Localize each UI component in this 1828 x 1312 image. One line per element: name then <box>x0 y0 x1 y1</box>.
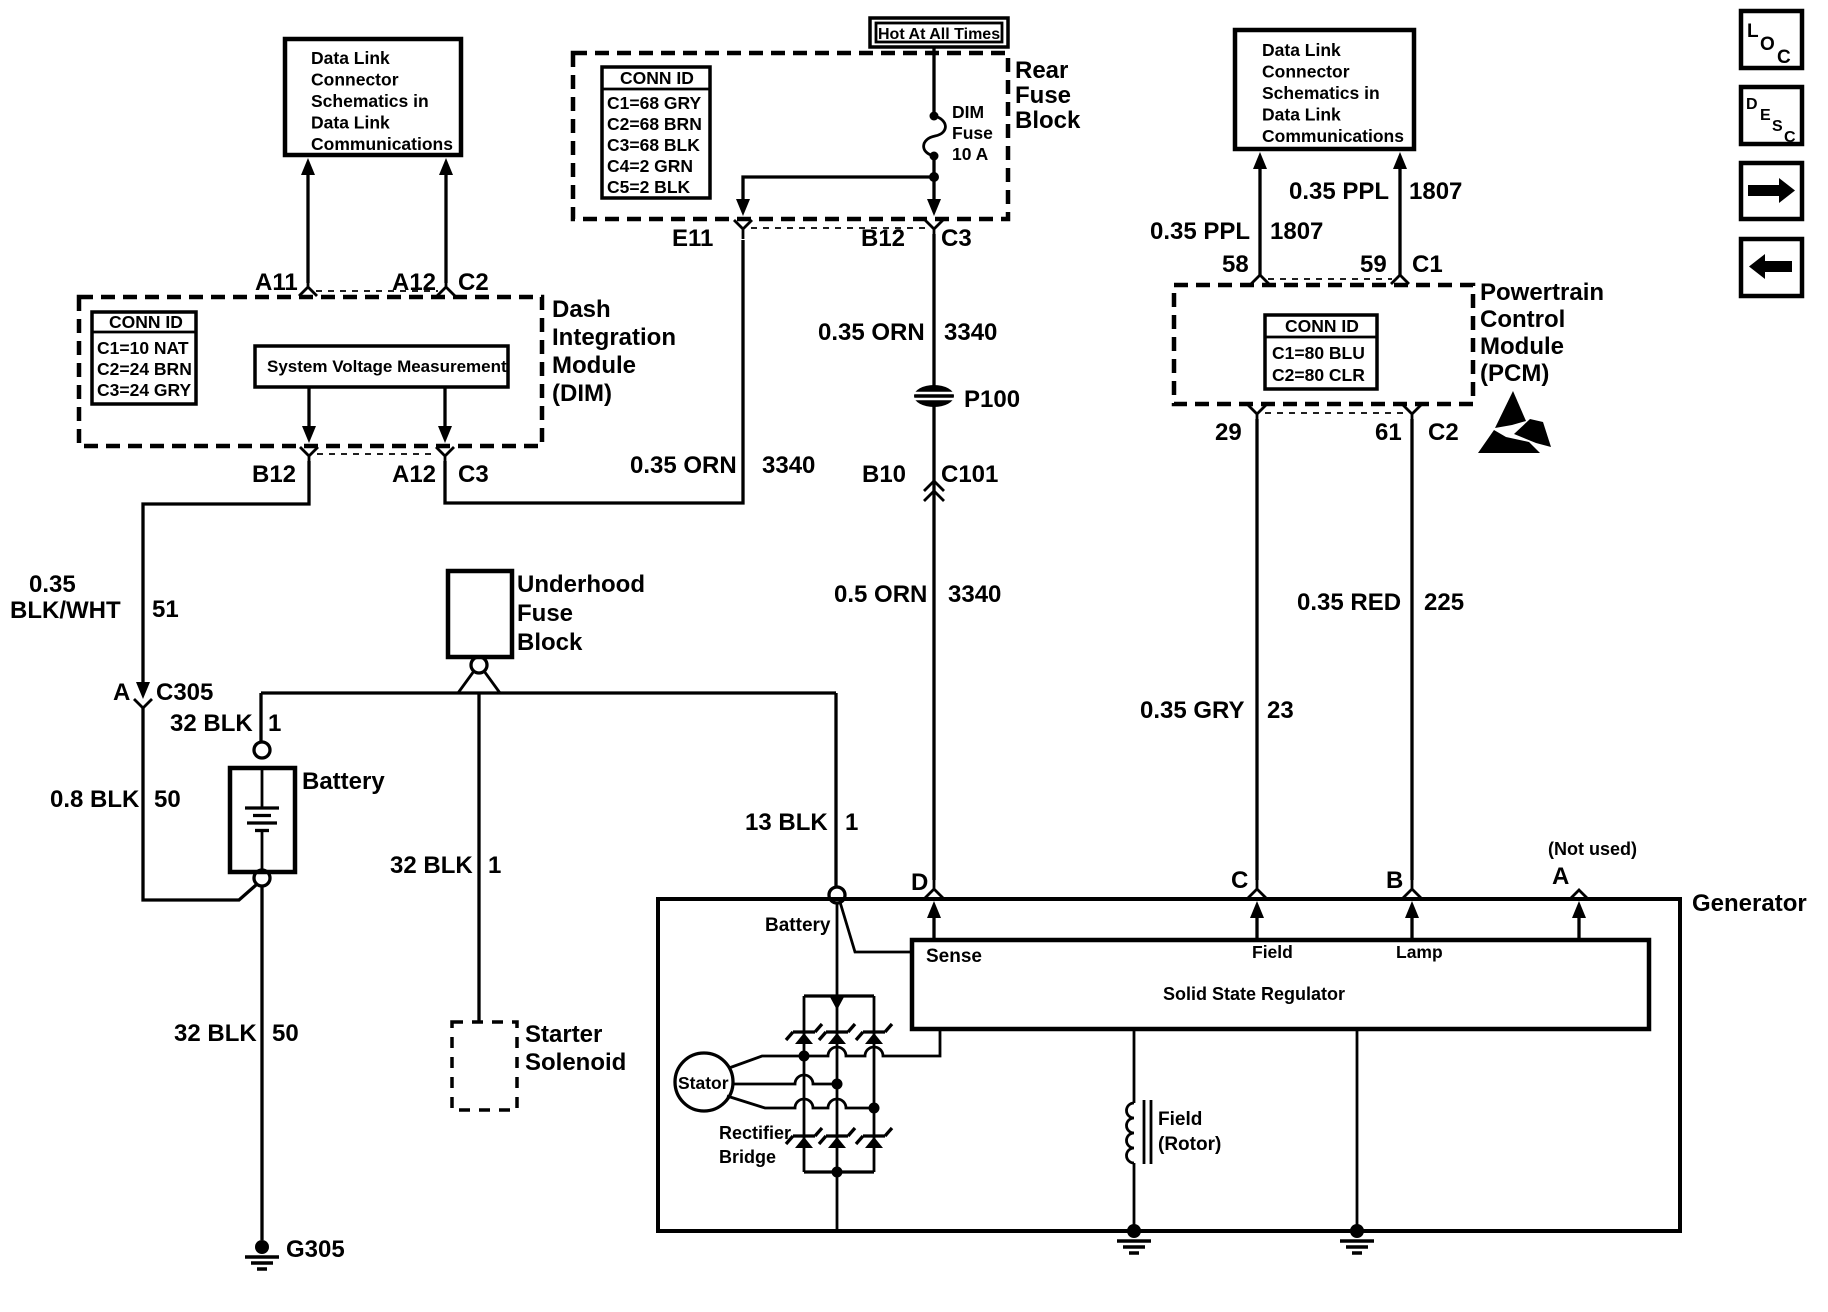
svg-text:D: D <box>1746 96 1758 113</box>
arrow into regulator A <box>1572 901 1586 940</box>
svg-text:C3: C3 <box>941 225 972 252</box>
svg-text:32 BLK: 32 BLK <box>170 710 253 737</box>
svg-text:A: A <box>1552 863 1569 890</box>
svg-text:C2=80 CLR: C2=80 CLR <box>1272 365 1365 385</box>
back arrow button <box>1741 239 1802 296</box>
wire SVM to pin B12 <box>302 387 316 443</box>
svg-text:3340: 3340 <box>762 452 815 479</box>
Field (Rotor) label <box>1158 1109 1221 1155</box>
connector pin E11 at RFB bottom <box>734 220 752 239</box>
bridge middle column <box>836 996 839 1172</box>
connector pin A (not used) <box>1571 890 1587 898</box>
svg-text:CONN ID: CONN ID <box>109 312 183 332</box>
svg-text:Sense: Sense <box>926 946 982 967</box>
svg-text:Data Link: Data Link <box>1262 105 1341 125</box>
Starter Solenoid label <box>525 1021 626 1076</box>
wire C305 to battery negative <box>143 708 256 900</box>
svg-text:Data Link: Data Link <box>1262 40 1341 60</box>
PCM CONN ID table <box>1265 315 1377 389</box>
connector face line 29-61 <box>1265 412 1404 414</box>
svg-text:50: 50 <box>272 1020 299 1047</box>
svg-text:Data Link: Data Link <box>311 113 390 133</box>
svg-text:C1: C1 <box>1412 251 1443 278</box>
svg-text:0.35 GRY: 0.35 GRY <box>1140 697 1245 724</box>
bridge right column <box>873 996 876 1172</box>
Hot At All Times box <box>870 18 1008 47</box>
svg-text:3340: 3340 <box>944 319 997 346</box>
wire junction to E11 <box>743 177 934 200</box>
svg-text:C101: C101 <box>941 461 998 488</box>
in-line connector A C305 <box>134 682 152 708</box>
svg-text:1: 1 <box>268 710 281 737</box>
arrow at bridge top <box>830 997 844 1010</box>
wire 61 to generator B <box>1410 419 1413 880</box>
svg-text:Generator: Generator <box>1692 890 1807 917</box>
svg-text:Fuse: Fuse <box>952 123 993 143</box>
svg-text:13 BLK: 13 BLK <box>745 809 828 836</box>
svg-text:C2=24 BRN: C2=24 BRN <box>97 359 192 379</box>
svg-text:1807: 1807 <box>1409 178 1462 205</box>
connector face line B12-A12 <box>317 453 437 455</box>
wire A11 to Data Link Connector <box>301 158 315 283</box>
DESC button <box>1741 87 1802 146</box>
battery positive ring <box>254 742 270 758</box>
svg-text:Solid State Regulator: Solid State Regulator <box>1163 984 1345 1004</box>
wire regulator to ground <box>1356 1029 1359 1231</box>
svg-text:61: 61 <box>1375 419 1402 446</box>
svg-text:Starter: Starter <box>525 1021 602 1048</box>
diode lower left <box>786 1128 822 1148</box>
connector pin B12 at DIM bottom <box>300 447 318 466</box>
Underhood Fuse Block box <box>448 571 512 657</box>
wire B12/C3 down to generator D <box>932 234 935 880</box>
Powertrain Control Module dashed box <box>1174 285 1473 404</box>
connector pin D at generator <box>925 879 943 898</box>
svg-text:Hot At All Times: Hot At All Times <box>878 26 1000 43</box>
svg-text:Communications: Communications <box>1262 126 1404 146</box>
svg-text:L: L <box>1747 21 1759 42</box>
svg-text:C3=68 BLK: C3=68 BLK <box>607 135 700 155</box>
svg-text:A: A <box>113 679 130 706</box>
ground G305 <box>245 1240 279 1269</box>
svg-text:Stator: Stator <box>678 1073 729 1093</box>
in-line connector B10 C101 <box>924 481 944 501</box>
svg-text:A12: A12 <box>392 269 436 296</box>
arrow into Sense <box>927 901 941 940</box>
svg-text:C5=2 BLK: C5=2 BLK <box>607 177 691 197</box>
svg-text:C1=80 BLU: C1=80 BLU <box>1272 343 1365 363</box>
wire battery terminal to sense <box>840 902 912 952</box>
svg-text:59: 59 <box>1360 251 1387 278</box>
ground at field coil <box>1117 1224 1151 1253</box>
svg-text:C3: C3 <box>458 461 489 488</box>
wire SVM to pin A12 C3 <box>438 387 452 443</box>
arrow into Field <box>1250 901 1264 940</box>
svg-text:Module: Module <box>1480 333 1564 360</box>
svg-text:CONN ID: CONN ID <box>1285 316 1359 336</box>
svg-text:Field: Field <box>1252 942 1293 962</box>
junction phase 2 <box>832 1079 843 1090</box>
svg-text:Data Link: Data Link <box>311 48 390 68</box>
DIM label <box>552 296 676 407</box>
Underhood Fuse Block label <box>517 571 645 656</box>
svg-text:B12: B12 <box>252 461 296 488</box>
connector face line 58-59 <box>1268 278 1392 280</box>
svg-text:0.35 PPL: 0.35 PPL <box>1150 218 1250 245</box>
svg-text:Schematics in: Schematics in <box>311 91 429 111</box>
battery negative ring <box>254 870 270 886</box>
svg-text:C2: C2 <box>1428 419 1459 446</box>
diode upper right <box>856 1024 892 1044</box>
svg-text:Fuse: Fuse <box>1015 82 1071 109</box>
svg-text:Bridge: Bridge <box>719 1147 776 1167</box>
svg-text:C1=68 GRY: C1=68 GRY <box>607 93 702 113</box>
svg-text:3340: 3340 <box>948 581 1001 608</box>
wire 58 to Data Link Connector <box>1253 152 1267 277</box>
PCM label <box>1480 279 1604 387</box>
svg-text:A12: A12 <box>392 461 436 488</box>
wire bridge to generator bottom <box>836 1172 839 1231</box>
svg-text:Powertrain: Powertrain <box>1480 279 1604 306</box>
svg-text:32 BLK: 32 BLK <box>390 852 473 879</box>
svg-text:Communications: Communications <box>311 134 453 154</box>
svg-text:(Not used): (Not used) <box>1548 839 1637 859</box>
ground at regulator <box>1340 1224 1374 1253</box>
Solid State Regulator box <box>912 940 1649 1029</box>
DIM fuse 10A <box>924 102 993 164</box>
svg-text:D: D <box>911 869 928 896</box>
forward arrow button <box>1741 163 1802 219</box>
connector pin B at generator <box>1403 879 1421 898</box>
Rear Fuse Block dashed box <box>573 53 1008 219</box>
svg-text:50: 50 <box>154 786 181 813</box>
RFB CONN ID table <box>602 67 710 198</box>
svg-text:B: B <box>1386 867 1403 894</box>
svg-text:E: E <box>1760 107 1771 124</box>
svg-text:32 BLK: 32 BLK <box>174 1020 257 1047</box>
connector pin C at generator <box>1248 879 1266 898</box>
stator phase 2 wire <box>733 1075 837 1084</box>
svg-text:C3=24 GRY: C3=24 GRY <box>97 380 192 400</box>
svg-text:0.35 RED: 0.35 RED <box>1297 589 1401 616</box>
wire 29 to generator C <box>1255 419 1258 880</box>
svg-text:225: 225 <box>1424 589 1464 616</box>
junction node <box>929 172 939 182</box>
Data Link Connector box (left) <box>285 39 461 155</box>
svg-text:Underhood: Underhood <box>517 571 645 598</box>
svg-text:System Voltage Measurement: System Voltage Measurement <box>267 357 507 376</box>
field rotor coil <box>1127 1100 1151 1164</box>
svg-text:58: 58 <box>1222 251 1249 278</box>
svg-text:1807: 1807 <box>1270 218 1323 245</box>
DIM CONN ID table <box>92 312 196 404</box>
connector pin 61 at PCM bottom <box>1403 405 1421 424</box>
Starter Solenoid dashed box <box>452 1022 517 1110</box>
junction phase 1 <box>799 1051 810 1062</box>
svg-text:G305: G305 <box>286 1236 345 1263</box>
svg-text:B12: B12 <box>861 225 905 252</box>
wire A12/C3 to E11 <box>445 240 743 503</box>
svg-text:C305: C305 <box>156 679 213 706</box>
ESD warning symbol <box>1478 391 1551 453</box>
svg-text:(Rotor): (Rotor) <box>1158 1134 1221 1155</box>
wire B12 to C305 <box>143 461 309 685</box>
wire fuse to junction <box>932 156 935 206</box>
Dash Integration Module dashed box <box>79 297 542 446</box>
svg-text:Fuse: Fuse <box>517 600 573 627</box>
ground distribution wire <box>261 691 836 694</box>
svg-text:C: C <box>1784 129 1796 146</box>
wire coil to ground <box>1133 1163 1136 1231</box>
svg-text:DIM: DIM <box>952 102 984 122</box>
connector pin B12/C3 at RFB bottom <box>925 220 943 239</box>
wire to starter solenoid <box>477 693 480 1022</box>
arrow out B12 <box>927 199 941 216</box>
svg-text:1: 1 <box>488 852 501 879</box>
svg-text:E11: E11 <box>672 225 713 252</box>
svg-text:Connector: Connector <box>311 70 399 90</box>
UFB wire split <box>458 671 500 693</box>
svg-text:Schematics in: Schematics in <box>1262 83 1380 103</box>
svg-text:23: 23 <box>1267 697 1294 724</box>
svg-text:CONN ID: CONN ID <box>620 68 694 88</box>
battery terminal ring on generator <box>829 887 845 903</box>
svg-text:C2: C2 <box>458 269 489 296</box>
System Voltage Measurement box <box>255 346 508 387</box>
svg-text:Rear: Rear <box>1015 57 1068 84</box>
svg-text:B10: B10 <box>862 461 906 488</box>
Rectifier Bridge label <box>719 1123 791 1167</box>
junction bridge bottom <box>832 1167 843 1178</box>
svg-text:Lamp: Lamp <box>1396 942 1443 962</box>
svg-text:0.5 ORN: 0.5 ORN <box>834 581 927 608</box>
svg-text:Rectifier: Rectifier <box>719 1123 791 1143</box>
diode upper left <box>786 1024 822 1044</box>
svg-text:C2=68 BRN: C2=68 BRN <box>607 114 702 134</box>
rectifier bridge bottom bar <box>804 1170 874 1173</box>
connector face line A11-A12 <box>316 290 438 292</box>
stator phase 1 wire to regulator <box>729 1029 940 1068</box>
wire 59 to Data Link Connector <box>1393 152 1407 277</box>
svg-text:29: 29 <box>1215 419 1242 446</box>
wire battery terminal to rectifier bridge <box>836 903 839 996</box>
connector pin 29 at PCM bottom <box>1248 405 1266 424</box>
svg-text:Battery: Battery <box>765 915 831 936</box>
svg-text:Block: Block <box>517 629 583 656</box>
svg-text:Field: Field <box>1158 1109 1202 1130</box>
svg-text:Connector: Connector <box>1262 62 1350 82</box>
grommet P100 <box>914 385 954 407</box>
junction phase 3 <box>869 1103 880 1114</box>
wire battery to G305 <box>260 886 263 1240</box>
diode lower right <box>856 1128 892 1148</box>
wire to generator battery terminal <box>834 693 837 887</box>
svg-text:1: 1 <box>845 809 858 836</box>
svg-text:C4=2 GRN: C4=2 GRN <box>607 156 693 176</box>
connector pin 59 at PCM top <box>1391 265 1409 284</box>
connector pin A12/C3 at DIM bottom <box>436 447 454 466</box>
svg-text:(DIM): (DIM) <box>552 380 612 407</box>
svg-text:S: S <box>1772 118 1783 135</box>
svg-text:C: C <box>1231 867 1248 894</box>
svg-text:Block: Block <box>1015 107 1081 134</box>
svg-text:BLK/WHT: BLK/WHT <box>10 597 121 624</box>
svg-text:Control: Control <box>1480 306 1565 333</box>
field rotor wire from regulator <box>1133 1029 1136 1103</box>
svg-text:Integration: Integration <box>552 324 676 351</box>
svg-text:51: 51 <box>152 596 179 623</box>
Rear Fuse Block label <box>1015 57 1081 134</box>
connector face line E11-B12 <box>751 227 926 229</box>
connector pin A12 at DIM top <box>437 277 455 296</box>
stator phase 3 wire <box>727 1096 874 1108</box>
UFB terminal ring <box>471 657 487 673</box>
svg-text:0.8 BLK: 0.8 BLK <box>50 786 140 813</box>
svg-text:0.35: 0.35 <box>29 571 76 598</box>
svg-text:0.35 PPL: 0.35 PPL <box>1289 178 1389 205</box>
Stator circle <box>675 1053 733 1111</box>
svg-text:O: O <box>1760 34 1775 55</box>
svg-text:Solenoid: Solenoid <box>525 1049 626 1076</box>
svg-text:Battery: Battery <box>302 768 385 795</box>
LOC button <box>1741 11 1802 68</box>
wire A12/C2 to Data Link Connector <box>439 158 453 283</box>
wire Hot At All Times to DIM fuse <box>932 47 935 114</box>
svg-text:C1=10 NAT: C1=10 NAT <box>97 338 189 358</box>
connector pin A11 at DIM top <box>299 277 317 296</box>
connector pin 58 at PCM top <box>1251 265 1269 284</box>
svg-text:C: C <box>1777 47 1791 68</box>
Generator box <box>658 899 1680 1231</box>
Battery box <box>230 768 295 872</box>
svg-text:A11: A11 <box>255 269 298 296</box>
svg-text:0.35 ORN: 0.35 ORN <box>630 452 737 479</box>
svg-text:10 A: 10 A <box>952 144 989 164</box>
svg-text:P100: P100 <box>964 386 1020 413</box>
svg-text:0.35 ORN: 0.35 ORN <box>818 319 925 346</box>
Data Link Connector box (right) <box>1235 30 1414 149</box>
svg-text:(PCM): (PCM) <box>1480 360 1549 387</box>
svg-text:Dash: Dash <box>552 296 611 323</box>
svg-text:Module: Module <box>552 352 636 379</box>
battery cell symbol <box>245 768 279 872</box>
rectifier bridge top bar <box>804 994 874 997</box>
wire to battery positive <box>259 693 262 742</box>
diode upper middle <box>819 1024 855 1044</box>
diode lower middle <box>819 1128 855 1148</box>
arrow into Lamp <box>1405 901 1419 940</box>
bridge left column <box>803 996 806 1172</box>
arrow out E11 <box>736 199 750 216</box>
